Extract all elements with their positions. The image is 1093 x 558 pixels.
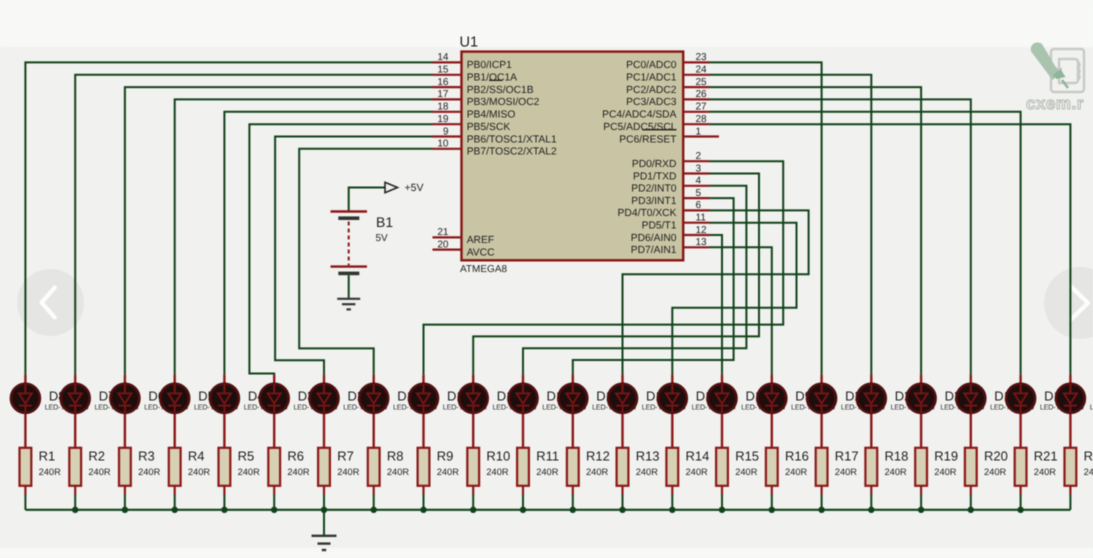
svg-text:R4: R4 [188, 449, 205, 464]
svg-text:5: 5 [696, 188, 702, 199]
svg-text:R6: R6 [287, 449, 304, 464]
svg-text:R16: R16 [785, 449, 809, 464]
svg-text:R18: R18 [885, 449, 909, 464]
svg-text:11: 11 [696, 213, 707, 224]
svg-text:PB5/SCK: PB5/SCK [467, 122, 511, 133]
svg-text:PB4/MISO: PB4/MISO [467, 110, 516, 121]
svg-text:21: 21 [437, 227, 449, 238]
svg-text:PC0/ADC0: PC0/ADC0 [626, 60, 677, 71]
svg-text:240R: 240R [287, 467, 310, 477]
svg-text:+5V: +5V [405, 182, 424, 194]
svg-text:R12: R12 [586, 449, 610, 464]
svg-text:240R: 240R [835, 467, 858, 477]
svg-text:PB0/ICP1: PB0/ICP1 [467, 60, 512, 71]
svg-text:16: 16 [437, 77, 449, 88]
svg-text:240R: 240R [1034, 467, 1057, 477]
svg-text:19: 19 [437, 114, 449, 125]
svg-text:PB3/MOSI/OC2: PB3/MOSI/OC2 [467, 97, 540, 108]
svg-text:240R: 240R [387, 467, 410, 477]
svg-text:PB6/TOSC1/XTAL1: PB6/TOSC1/XTAL1 [467, 134, 557, 145]
svg-text:9: 9 [443, 126, 449, 137]
svg-text:PB7/TOSC2/XTAL2: PB7/TOSC2/XTAL2 [467, 147, 557, 158]
svg-text:240R: 240R [437, 467, 460, 477]
svg-text:PB2/SS/OC1B: PB2/SS/OC1B [467, 85, 534, 96]
svg-text:R20: R20 [984, 449, 1008, 464]
svg-text:4: 4 [696, 176, 702, 187]
svg-text:240R: 240R [486, 467, 509, 477]
svg-text:18: 18 [437, 102, 449, 113]
svg-text:17: 17 [437, 89, 449, 100]
svg-text:240R: 240R [138, 467, 161, 477]
svg-text:240R: 240R [586, 467, 609, 477]
svg-text:R8: R8 [387, 449, 404, 464]
svg-text:R19: R19 [934, 449, 958, 464]
svg-text:27: 27 [696, 102, 708, 113]
svg-text:R10: R10 [486, 449, 510, 464]
svg-text:PD5/T1: PD5/T1 [642, 221, 677, 232]
svg-text:240R: 240R [885, 467, 908, 477]
svg-text:PC1/ADC1: PC1/ADC1 [626, 73, 677, 84]
svg-text:240R: 240R [337, 467, 360, 477]
svg-text:240R: 240R [238, 467, 261, 477]
svg-text:R2: R2 [88, 449, 105, 464]
svg-text:R1: R1 [39, 449, 56, 464]
svg-text:240R: 240R [188, 467, 211, 477]
svg-text:240R: 240R [636, 467, 659, 477]
svg-text:240R: 240R [88, 467, 111, 477]
svg-text:5V: 5V [376, 233, 389, 244]
svg-text:R5: R5 [238, 449, 255, 464]
svg-text:PC5/ADC5/SCL: PC5/ADC5/SCL [603, 122, 677, 133]
svg-text:240R: 240R [536, 467, 559, 477]
svg-text:AVCC: AVCC [467, 247, 495, 258]
svg-text:cxem.r: cxem.r [1026, 94, 1084, 113]
svg-text:28: 28 [696, 114, 708, 125]
svg-text:R14: R14 [686, 449, 710, 464]
svg-text:24: 24 [696, 65, 708, 76]
svg-text:1: 1 [696, 126, 702, 137]
svg-text:PD0/RXD: PD0/RXD [632, 159, 677, 170]
svg-text:R7: R7 [337, 449, 354, 464]
svg-text:R11: R11 [536, 449, 559, 464]
svg-text:15: 15 [437, 65, 449, 76]
svg-text:R17: R17 [835, 449, 859, 464]
svg-text:PD3/INT1: PD3/INT1 [631, 196, 676, 207]
svg-text:R9: R9 [437, 449, 454, 464]
svg-text:26: 26 [696, 89, 708, 100]
svg-text:12: 12 [696, 225, 708, 236]
svg-text:240R: 240R [984, 467, 1007, 477]
svg-text:240R: 240R [934, 467, 957, 477]
svg-text:R15: R15 [735, 449, 759, 464]
svg-text:14: 14 [437, 52, 449, 63]
svg-text:3: 3 [696, 163, 702, 174]
svg-text:ATMEGA8: ATMEGA8 [460, 264, 507, 275]
svg-text:13: 13 [696, 237, 708, 248]
svg-text:25: 25 [696, 77, 708, 88]
svg-text:PD2/INT0: PD2/INT0 [631, 184, 676, 195]
svg-text:PC6/RESET: PC6/RESET [619, 134, 677, 145]
svg-text:23: 23 [696, 52, 708, 63]
svg-text:240R: 240R [686, 467, 709, 477]
svg-text:PD1/TXD: PD1/TXD [633, 171, 677, 182]
svg-text:PD7/AIN1: PD7/AIN1 [631, 245, 677, 256]
svg-text:PB1/OC1A: PB1/OC1A [467, 73, 517, 84]
svg-text:R22: R22 [1084, 449, 1093, 464]
svg-text:R21: R21 [1034, 449, 1058, 464]
svg-text:R13: R13 [636, 449, 660, 464]
svg-text:240R: 240R [735, 467, 758, 477]
svg-text:AREF: AREF [467, 235, 494, 246]
svg-text:PC4/ADC4/SDA: PC4/ADC4/SDA [602, 110, 677, 121]
svg-text:PD6/AIN0: PD6/AIN0 [631, 233, 677, 244]
svg-text:PC2/ADC2: PC2/ADC2 [626, 85, 677, 96]
svg-text:2: 2 [696, 151, 702, 162]
svg-text:10: 10 [437, 139, 449, 150]
svg-text:240R: 240R [1084, 467, 1093, 477]
svg-text:R3: R3 [138, 449, 155, 464]
svg-text:PC3/ADC3: PC3/ADC3 [626, 97, 677, 108]
svg-text:6: 6 [696, 200, 702, 211]
svg-text:B1: B1 [376, 214, 393, 230]
svg-text:240R: 240R [39, 467, 62, 477]
svg-text:PD4/T0/XCK: PD4/T0/XCK [618, 208, 677, 219]
svg-text:U1: U1 [460, 35, 479, 51]
svg-text:240R: 240R [785, 467, 808, 477]
svg-text:20: 20 [437, 239, 449, 250]
